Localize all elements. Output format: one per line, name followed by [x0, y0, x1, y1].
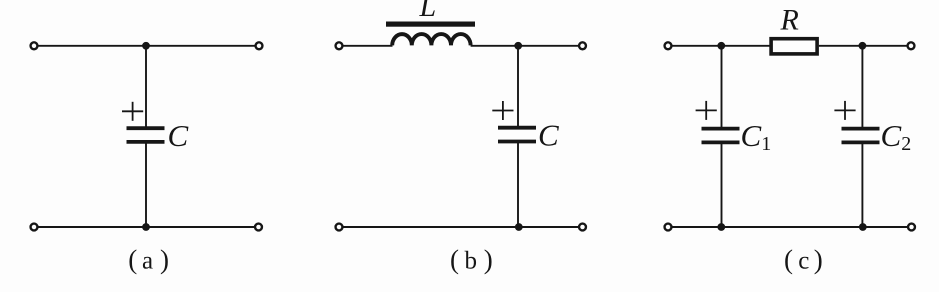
- svg-text:(: (: [128, 244, 137, 274]
- capacitor C (b): plates: [498, 128, 536, 142]
- svg-text:c: c: [798, 248, 809, 275]
- wire: (b) vertical from capacitor to bottom rail: [517, 142, 519, 227]
- wire: (c) C2 vertical bottom: [861, 143, 863, 227]
- caption (a): [128, 244, 169, 274]
- junction: (c) top-left node: [717, 42, 725, 50]
- wire: bottom rail (c): [668, 226, 912, 228]
- wire: top rail (a): [34, 45, 259, 47]
- caption (c): [784, 244, 823, 274]
- terminal: (c) bottom-left: [665, 224, 672, 231]
- wire: bottom rail (a): [34, 226, 259, 228]
- wire: (c) C1 vertical top: [721, 46, 723, 128]
- svg-text:(: (: [784, 244, 793, 274]
- resistor R: [771, 39, 817, 54]
- wire: (b) vertical from top rail to capacitor: [517, 46, 519, 127]
- capacitor C1: plates: [702, 129, 740, 143]
- junction: (a) top node: [142, 42, 150, 50]
- junction: (c) bottom-left node: [717, 223, 725, 231]
- wire: (c) C2 vertical top: [861, 46, 863, 128]
- wire: top rail left segment (c): [668, 45, 770, 47]
- polarity plus (a): [122, 102, 143, 121]
- terminal: (c) top-right: [908, 42, 915, 49]
- svg-text:L: L: [419, 0, 437, 23]
- junction: (c) bottom-right node: [859, 223, 867, 231]
- svg-text:): ): [814, 244, 823, 274]
- inductor L coils: [392, 34, 470, 45]
- wire: bottom rail (b): [339, 226, 583, 228]
- wire: top rail right segment (c): [819, 45, 911, 47]
- junction: (b) bottom node: [515, 223, 523, 231]
- terminal: (b) bottom-right: [579, 224, 586, 231]
- terminal: (c) top-left: [665, 42, 672, 49]
- terminal: (a) top-left: [31, 42, 38, 49]
- terminal: (a) bottom-right: [255, 224, 262, 231]
- svg-text:): ): [484, 244, 493, 274]
- svg-text:C: C: [168, 118, 189, 153]
- polarity plus (C1): [696, 101, 717, 120]
- junction: (b) top node: [514, 42, 522, 50]
- terminal: (b) top-left: [336, 42, 343, 49]
- wire: (a) vertical from capacitor to bottom rail: [145, 143, 147, 228]
- wire: top rail right segment (b): [471, 45, 583, 47]
- polarity plus (C2): [834, 101, 855, 120]
- wire: top rail left segment (b): [339, 45, 393, 47]
- wire: (c) C1 vertical bottom: [721, 143, 723, 227]
- svg-text:): ): [160, 244, 169, 274]
- polarity plus (b): [492, 101, 513, 120]
- capacitor C2: plates: [842, 129, 880, 143]
- junction: (c) top-right node: [859, 42, 867, 50]
- svg-text:(: (: [450, 244, 459, 274]
- terminal: (c) bottom-right: [908, 224, 915, 231]
- inductor L core bar: [386, 22, 475, 27]
- svg-text:a: a: [142, 248, 153, 275]
- svg-text:C: C: [538, 118, 559, 153]
- caption (b): [450, 244, 493, 274]
- svg-text:b: b: [465, 248, 478, 275]
- capacitor C (a): plates: [127, 128, 165, 142]
- junction: (a) bottom node: [142, 223, 150, 231]
- wire: (a) vertical from top rail to capacitor: [145, 46, 147, 128]
- terminal: (b) bottom-left: [336, 224, 343, 231]
- svg-text:R: R: [780, 4, 799, 37]
- terminal: (a) top-right: [256, 42, 263, 49]
- terminal: (b) top-right: [579, 42, 586, 49]
- terminal: (a) bottom-left: [31, 224, 38, 231]
